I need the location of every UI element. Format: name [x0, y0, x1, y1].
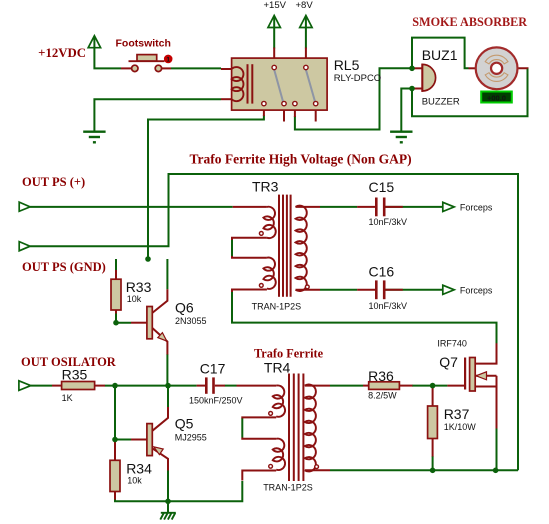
svg-text:R34: R34 [126, 460, 152, 476]
svg-text:OUT PS (GND): OUT PS (GND) [22, 260, 106, 274]
svg-text:RLY-DPCO: RLY-DPCO [334, 73, 382, 84]
svg-text:Footswitch: Footswitch [116, 37, 171, 49]
svg-text:R37: R37 [444, 406, 470, 422]
svg-text:R36: R36 [368, 368, 394, 384]
svg-text:+8V: +8V [296, 0, 314, 11]
svg-text:10nF/3kV: 10nF/3kV [369, 301, 408, 311]
svg-text:Trafo Ferrite: Trafo Ferrite [254, 346, 324, 360]
svg-text:150knF/250V: 150knF/250V [189, 396, 243, 406]
svg-text:+15V: +15V [264, 0, 287, 11]
svg-text:MJ2955: MJ2955 [175, 433, 207, 443]
svg-text:TRAN-1P2S: TRAN-1P2S [252, 302, 302, 312]
svg-text:SMOKE ABSORBER: SMOKE ABSORBER [412, 15, 527, 29]
svg-text:Forceps: Forceps [460, 286, 493, 296]
svg-text:Q6: Q6 [175, 300, 194, 316]
svg-text:2N3055: 2N3055 [175, 316, 207, 326]
svg-text:1K/10W: 1K/10W [444, 422, 477, 432]
svg-text:TRAN-1P2S: TRAN-1P2S [263, 483, 313, 493]
svg-text:+12VDC: +12VDC [38, 46, 86, 60]
svg-text:1: 1 [166, 56, 170, 63]
svg-text:C16: C16 [369, 264, 395, 280]
svg-text:C17: C17 [200, 360, 226, 376]
svg-text:Trafo Ferrite High Voltage (No: Trafo Ferrite High Voltage (Non GAP) [190, 151, 412, 166]
svg-text:TR3: TR3 [252, 178, 279, 194]
svg-text:Q5: Q5 [175, 416, 194, 432]
svg-text:C15: C15 [369, 179, 395, 195]
svg-text:BUZ1: BUZ1 [422, 47, 458, 63]
svg-text:1K: 1K [62, 393, 73, 403]
svg-text:IRF740: IRF740 [437, 339, 467, 349]
svg-text:OUT PS (+): OUT PS (+) [22, 175, 85, 189]
svg-text:8.2/5W: 8.2/5W [368, 391, 397, 401]
svg-text:10k: 10k [127, 475, 142, 485]
svg-text:10nF/3kV: 10nF/3kV [369, 217, 408, 227]
svg-text:+00.0: +00.0 [487, 93, 506, 102]
svg-text:Q7: Q7 [439, 354, 458, 370]
svg-text:R35: R35 [62, 367, 88, 383]
svg-text:RL5: RL5 [334, 57, 360, 73]
svg-text:BUZZER: BUZZER [422, 96, 460, 107]
svg-text:10k: 10k [127, 294, 142, 304]
svg-text:TR4: TR4 [264, 360, 291, 376]
svg-text:R33: R33 [126, 279, 152, 295]
svg-text:Forceps: Forceps [460, 202, 493, 212]
